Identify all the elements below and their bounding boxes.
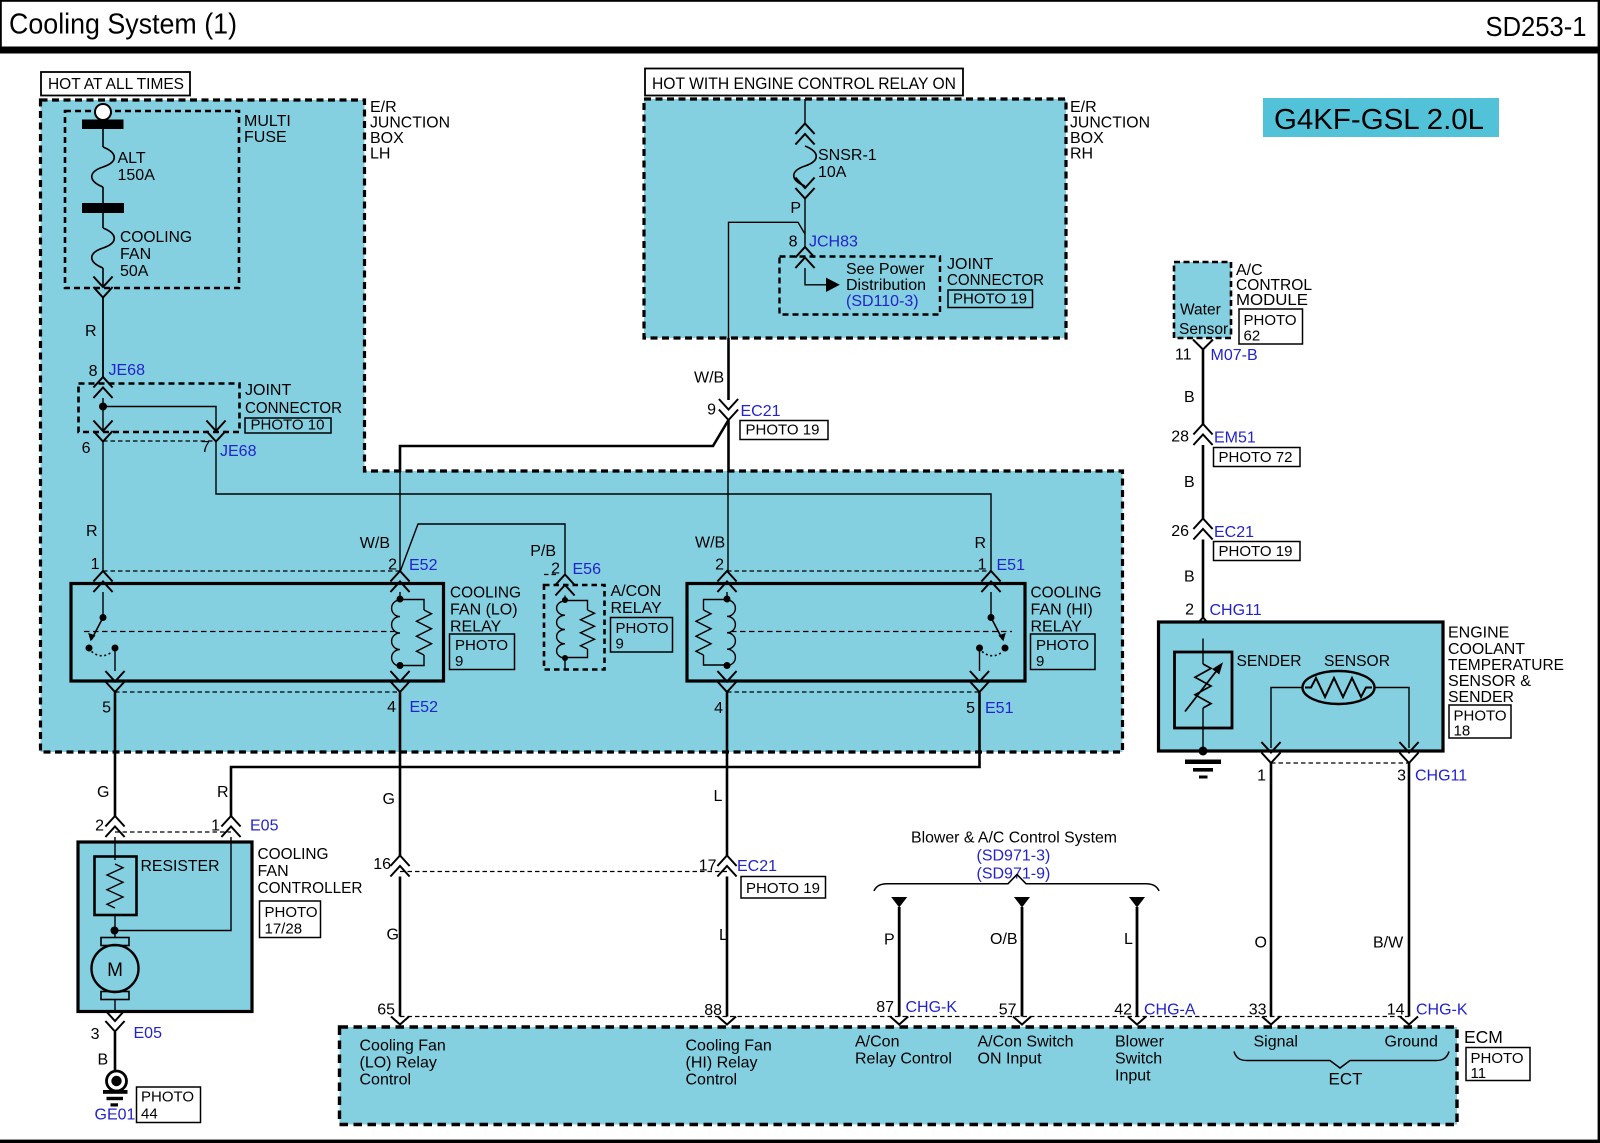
svg-text:Signal: Signal [1254, 1034, 1298, 1051]
arrow to power distribution [826, 278, 840, 292]
svg-text:Relay Control: Relay Control [855, 1051, 952, 1068]
photo 9 box (HI relay) [1031, 634, 1096, 670]
svg-text:(SD971-3): (SD971-3) [977, 848, 1051, 865]
svg-text:CHG-K: CHG-K [906, 999, 958, 1016]
HI relay pin 4 chevron [717, 671, 736, 692]
node controller junction [111, 927, 119, 935]
wire B module to EM51 [1202, 350, 1205, 425]
svg-text:M07-B: M07-B [1211, 347, 1258, 364]
svg-text:PHOTO 19: PHOTO 19 [746, 422, 820, 439]
svg-text:PHOTO: PHOTO [1036, 637, 1089, 654]
svg-text:R: R [974, 535, 986, 552]
svg-text:ALT: ALT [118, 150, 146, 167]
svg-text:JOINT: JOINT [947, 256, 993, 273]
svg-text:EC21: EC21 [1214, 524, 1254, 541]
battery terminal circle [95, 104, 111, 120]
svg-text:PHOTO 72: PHOTO 72 [1219, 449, 1293, 466]
svg-text:Switch: Switch [1115, 1051, 1162, 1068]
svg-text:Blower & A/C Control System: Blower & A/C Control System [911, 830, 1117, 847]
photo 19 box (EC21-26) [1214, 542, 1301, 561]
wire R fuse to JE68 [102, 298, 104, 378]
svg-text:ECM: ECM [1464, 1027, 1503, 1047]
svg-text:(LO) Relay: (LO) Relay [360, 1055, 437, 1072]
svg-text:BOX: BOX [370, 130, 404, 147]
svg-text:B: B [1184, 474, 1195, 491]
svg-text:10A: 10A [818, 164, 847, 181]
svg-text:SENSOR &: SENSOR & [1448, 673, 1531, 690]
svg-text:Control: Control [360, 1072, 412, 1089]
see power distribution box [780, 257, 941, 315]
svg-text:3: 3 [1397, 768, 1406, 785]
HI relay coil [726, 592, 728, 599]
wire W/B branch in RH box [729, 222, 806, 338]
a/con relay box [544, 585, 605, 670]
wire G LO pin4 down [399, 693, 402, 856]
svg-text:GE01: GE01 [95, 1107, 136, 1124]
underbrace ECT [1234, 1052, 1449, 1069]
svg-text:14: 14 [1387, 1002, 1405, 1019]
svg-text:R: R [217, 784, 229, 801]
svg-text:G4KF-GSL 2.0L: G4KF-GSL 2.0L [1274, 104, 1484, 136]
svg-text:O: O [1255, 935, 1267, 952]
svg-text:B: B [1184, 569, 1195, 586]
wire W/B EC21 to HI relay coil [727, 420, 730, 472]
svg-text:COOLING: COOLING [450, 585, 521, 602]
svg-text:JUNCTION: JUNCTION [1070, 115, 1150, 132]
svg-text:RH: RH [1070, 146, 1093, 163]
svg-text:JE68: JE68 [109, 362, 146, 379]
ECM pin 87 [890, 1017, 908, 1025]
svg-text:9: 9 [707, 402, 716, 419]
svg-text:RELAY: RELAY [450, 619, 502, 636]
svg-text:PHOTO 10: PHOTO 10 [251, 417, 325, 434]
motor M [114, 931, 116, 939]
svg-text:28: 28 [1171, 429, 1189, 446]
photo 44 box [137, 1087, 201, 1123]
svg-text:Sensor: Sensor [1179, 321, 1228, 338]
svg-text:B: B [1184, 389, 1195, 406]
svg-text:44: 44 [141, 1106, 158, 1123]
wire into SNSR-1 [804, 99, 806, 124]
svg-text:RELAY: RELAY [611, 600, 663, 617]
wire R JE68-6 to LO relay pin1 [102, 442, 104, 572]
svg-text:G: G [387, 927, 399, 944]
ECM pin 57 [1013, 1017, 1031, 1025]
HI relay switch [990, 592, 992, 618]
svg-text:SENDER: SENDER [1237, 653, 1302, 670]
svg-text:E05: E05 [250, 818, 279, 835]
svg-text:1: 1 [91, 556, 100, 573]
svg-text:MULTI: MULTI [244, 113, 291, 130]
water sensor box [1174, 262, 1231, 338]
wire W/B branch to LO relay [400, 420, 729, 472]
svg-text:E05: E05 [134, 1025, 163, 1042]
page right border [1598, 0, 1600, 1143]
svg-text:Water: Water [1180, 302, 1221, 319]
fuse terminal bar top [82, 120, 124, 130]
wire R HI pin5 to E05-1 [231, 693, 980, 817]
svg-text:9: 9 [616, 636, 624, 653]
label HOT AT ALL TIMES [41, 72, 190, 96]
svg-text:CONTROLLER: CONTROLLER [258, 880, 363, 897]
fuse COOLING FAN 50A [102, 213, 104, 228]
LO relay pin 4 chevron [390, 671, 409, 692]
svg-text:4: 4 [714, 700, 723, 717]
svg-text:M: M [107, 960, 123, 981]
wire B to ground [114, 1032, 117, 1072]
ECM pin 33 [1262, 1017, 1280, 1025]
title separator rule [0, 47, 1600, 54]
wire L to ECM 42 [1129, 897, 1145, 908]
svg-text:COOLANT: COOLANT [1448, 641, 1525, 658]
svg-text:SENDER: SENDER [1448, 689, 1514, 706]
svg-text:CHG11: CHG11 [1415, 768, 1467, 785]
wire G pin16 to ECM65 [399, 877, 402, 1017]
svg-text:65: 65 [377, 1002, 395, 1019]
E/R junction box RH region [644, 99, 1066, 338]
HI relay mechanical link [731, 631, 1012, 633]
svg-text:B/W: B/W [1373, 935, 1404, 952]
svg-text:11: 11 [1471, 1065, 1487, 1082]
svg-text:PHOTO: PHOTO [141, 1089, 194, 1106]
svg-text:P: P [790, 200, 801, 217]
svg-text:Ground: Ground [1385, 1034, 1438, 1051]
cooling fan LO relay box [71, 584, 444, 682]
cooling fan HI relay box [687, 584, 1025, 682]
joint connector internal wires [102, 398, 104, 431]
ECM region [340, 1027, 1458, 1125]
sender sub-box [1175, 652, 1233, 728]
page bottom border [0, 1140, 1600, 1143]
wire resister to motor [114, 915, 116, 931]
svg-text:3: 3 [91, 1026, 100, 1043]
ECM pin 88 [718, 1017, 736, 1025]
wire B EC21 to CHG11 [1202, 540, 1205, 618]
svg-text:2: 2 [95, 818, 104, 835]
svg-text:E/R: E/R [370, 99, 397, 116]
svg-text:FAN: FAN [120, 246, 151, 263]
connector M07-B pin 11 [1193, 340, 1213, 350]
connector CHG11 pin 1 [1261, 742, 1280, 763]
ground GE01 [107, 1071, 127, 1091]
svg-text:18: 18 [1454, 723, 1471, 740]
wire P to JCH83 [804, 199, 806, 248]
wire P/B E52 to A/CON relay [400, 524, 565, 574]
svg-text:R: R [85, 323, 97, 340]
LO relay pin 1 chevron [93, 571, 112, 592]
wire O to ECM 33 [1270, 763, 1273, 1017]
svg-text:(SD971-9): (SD971-9) [977, 866, 1051, 883]
svg-text:87: 87 [876, 999, 894, 1016]
svg-text:FAN (LO): FAN (LO) [450, 602, 518, 619]
svg-text:BOX: BOX [1070, 130, 1104, 147]
photo 17/28 box [260, 901, 321, 938]
svg-text:57: 57 [999, 1002, 1017, 1019]
svg-text:9: 9 [455, 653, 463, 670]
svg-text:9: 9 [1036, 653, 1044, 670]
svg-text:SNSR-1: SNSR-1 [818, 147, 877, 164]
svg-text:A/Con: A/Con [855, 1034, 899, 1051]
photo 72 box [1214, 448, 1301, 467]
sender variable resistor [1202, 639, 1204, 665]
wire P to ECM 87 [891, 897, 907, 908]
svg-text:TEMPERATURE: TEMPERATURE [1448, 657, 1564, 674]
svg-text:16: 16 [373, 856, 391, 873]
joint connector JE68 box [79, 384, 240, 433]
svg-text:SENSOR: SENSOR [1324, 653, 1390, 670]
photo 62 box [1239, 309, 1303, 344]
svg-text:EC21: EC21 [737, 858, 777, 875]
svg-text:5: 5 [966, 700, 975, 717]
connector CHG11 pin 3 [1399, 742, 1418, 763]
svg-text:PHOTO 19: PHOTO 19 [1219, 543, 1293, 560]
svg-text:JOINT: JOINT [245, 382, 291, 399]
page left border [0, 0, 2, 53]
node JE68 junction [99, 403, 107, 411]
svg-text:(SD110-3): (SD110-3) [846, 293, 919, 310]
fuse terminal bar middle [82, 203, 124, 213]
svg-text:88: 88 [704, 1002, 722, 1019]
cooling fan controller box [78, 842, 252, 1012]
resister R [114, 837, 116, 860]
overbrace [874, 875, 1159, 892]
svg-text:8: 8 [89, 363, 98, 380]
svg-text:G: G [97, 784, 109, 801]
svg-text:FAN (HI): FAN (HI) [1031, 602, 1093, 619]
LO relay pin 5 chevron [105, 671, 124, 692]
svg-text:Cooling System (1): Cooling System (1) [9, 9, 237, 41]
svg-text:ENGINE: ENGINE [1448, 625, 1509, 642]
svg-text:EC21: EC21 [741, 403, 781, 420]
E/R junction box LH + relay band region [41, 100, 1123, 752]
photo 9 box (A/CON relay) [611, 618, 673, 653]
svg-text:HOT AT ALL TIMES: HOT AT ALL TIMES [48, 76, 184, 93]
svg-text:RELAY: RELAY [1031, 619, 1083, 636]
fuse ALT 150A [102, 129, 104, 147]
ECM pin 42 [1128, 1017, 1146, 1025]
A/CON relay coil [564, 596, 566, 601]
svg-text:E52: E52 [409, 557, 438, 574]
ECM pin dashed line [400, 1016, 1409, 1018]
svg-text:Distribution: Distribution [846, 277, 926, 294]
HI relay pin 5 chevron [970, 671, 989, 692]
svg-text:MODULE: MODULE [1236, 292, 1308, 309]
photo 11 box [1466, 1048, 1530, 1081]
svg-text:HOT WITH ENGINE CONTROL RELAY: HOT WITH ENGINE CONTROL RELAY ON [652, 75, 956, 93]
sensor wires [1271, 688, 1303, 749]
svg-text:A/Con Switch: A/Con Switch [978, 1034, 1074, 1051]
svg-text:62: 62 [1244, 328, 1261, 345]
svg-text:B: B [98, 1052, 109, 1069]
svg-text:Cooling Fan: Cooling Fan [686, 1038, 772, 1055]
svg-text:CHG-K: CHG-K [1416, 1002, 1468, 1019]
svg-text:P: P [884, 932, 895, 949]
LO relay switch [102, 592, 104, 618]
svg-text:P/B: P/B [530, 543, 556, 560]
svg-text:W/B: W/B [360, 535, 390, 552]
svg-text:COOLING: COOLING [258, 846, 329, 863]
svg-text:(HI) Relay: (HI) Relay [686, 1055, 758, 1072]
label HOT WITH ENGINE CONTROL RELAY ON [645, 69, 963, 96]
svg-text:33: 33 [1249, 1002, 1267, 1019]
svg-text:1: 1 [1257, 768, 1266, 785]
svg-text:JCH83: JCH83 [809, 234, 858, 251]
svg-text:2: 2 [1185, 602, 1194, 619]
page top border [0, 0, 1600, 2]
wire L pin17 to ECM88 [726, 877, 729, 1017]
svg-text:PHOTO 19: PHOTO 19 [953, 291, 1027, 308]
svg-text:E52: E52 [410, 699, 439, 716]
photo 19 box (EC21-9) [740, 421, 828, 440]
svg-text:PHOTO: PHOTO [455, 637, 508, 654]
multi fuse box [65, 111, 239, 288]
svg-text:5: 5 [102, 700, 111, 717]
svg-text:Input: Input [1115, 1068, 1151, 1085]
svg-text:2: 2 [715, 557, 724, 574]
ECM pin 14 [1400, 1017, 1418, 1025]
wire B/W to ECM 14 [1408, 763, 1411, 1017]
svg-text:CHG-A: CHG-A [1144, 1002, 1196, 1019]
photo 10 box [245, 418, 331, 433]
svg-text:G: G [383, 791, 395, 808]
LO relay mechanical link [84, 631, 396, 633]
LO relay coil [399, 592, 401, 599]
svg-text:PHOTO: PHOTO [1244, 312, 1297, 329]
photo 18 box [1449, 705, 1511, 738]
wire R E05-1 to motor node [115, 837, 231, 931]
connector E05 pin 3 [105, 1011, 124, 1032]
svg-text:PHOTO: PHOTO [265, 904, 318, 921]
svg-text:O/B: O/B [990, 931, 1018, 948]
svg-text:150A: 150A [118, 167, 156, 184]
photo 19 box (JCH83) [948, 290, 1033, 308]
svg-text:17/28: 17/28 [265, 921, 303, 938]
svg-text:E56: E56 [573, 561, 602, 578]
photo 19 box (EC21-17) [741, 877, 826, 899]
svg-text:W/B: W/B [695, 535, 725, 552]
svg-text:EM51: EM51 [1214, 430, 1256, 447]
svg-text:L: L [719, 927, 728, 944]
svg-text:CONNECTOR: CONNECTOR [947, 272, 1044, 289]
svg-text:CONNECTOR: CONNECTOR [245, 400, 342, 417]
wire O/B to ECM 57 [1014, 897, 1030, 908]
svg-text:PHOTO: PHOTO [616, 620, 669, 637]
svg-text:LH: LH [370, 146, 390, 163]
svg-text:8: 8 [789, 234, 798, 251]
svg-text:COOLING: COOLING [120, 229, 192, 246]
wire B EM51 to EC21 [1202, 445, 1205, 519]
svg-text:L: L [1124, 931, 1133, 948]
svg-text:RESISTER: RESISTER [141, 858, 220, 875]
svg-text:R: R [86, 523, 98, 540]
ECM pin 65 [391, 1017, 409, 1025]
svg-text:JE68: JE68 [220, 443, 257, 460]
engine coolant temp sensor box [1159, 622, 1444, 751]
svg-text:JUNCTION: JUNCTION [370, 115, 450, 132]
svg-text:A/CON: A/CON [611, 583, 662, 600]
wire W/B to EC21 pin9 [727, 338, 730, 400]
svg-text:SD253-1: SD253-1 [1486, 11, 1587, 42]
wire L HI pin4 down [726, 693, 729, 856]
svg-text:42: 42 [1114, 1002, 1132, 1019]
svg-text:W/B: W/B [694, 370, 724, 387]
svg-text:PHOTO 19: PHOTO 19 [746, 880, 820, 897]
fuse exit chevron [93, 277, 112, 298]
svg-text:ECT: ECT [1329, 1070, 1363, 1089]
LO relay pin 2 chevron [390, 571, 409, 592]
svg-text:E51: E51 [997, 557, 1026, 574]
connector JE68 pin 7 [206, 421, 225, 442]
engine badge G4KF-GSL 2.0L [1263, 98, 1499, 137]
svg-text:CHG11: CHG11 [1210, 602, 1262, 619]
svg-text:Control: Control [686, 1072, 738, 1089]
svg-text:E/R: E/R [1070, 99, 1097, 116]
svg-text:L: L [714, 788, 723, 805]
connector JE68 pin 6 [93, 421, 112, 442]
ground node under sender [1199, 747, 1208, 756]
svg-text:FUSE: FUSE [244, 129, 287, 146]
wire G LO pin5 to E05-2 [114, 693, 117, 817]
svg-text:E51: E51 [985, 700, 1014, 717]
svg-text:Cooling Fan: Cooling Fan [360, 1038, 446, 1055]
svg-text:COOLING: COOLING [1031, 585, 1102, 602]
svg-text:50A: 50A [120, 263, 149, 280]
svg-text:26: 26 [1171, 523, 1189, 540]
svg-text:See Power: See Power [846, 261, 925, 278]
svg-text:6: 6 [82, 440, 91, 457]
svg-text:4: 4 [387, 699, 396, 716]
svg-text:11: 11 [1175, 347, 1192, 364]
svg-text:Blower: Blower [1115, 1034, 1165, 1051]
wire R JE68-7 to HI relay pin1 [216, 442, 991, 572]
photo 9 box (LO relay) [450, 634, 515, 670]
svg-text:FAN: FAN [258, 863, 289, 880]
fuse SNSR-1 10A [795, 124, 814, 145]
HI relay pin 1 chevron [981, 571, 1000, 592]
svg-text:ON Input: ON Input [978, 1051, 1043, 1068]
A/CON relay pin 2 chevron [555, 575, 574, 596]
